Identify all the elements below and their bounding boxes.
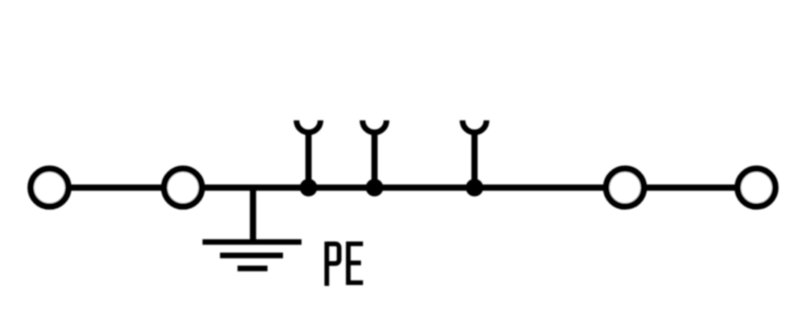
terminal circle X4 (rightmost) [738,169,776,207]
clamp connection symbol 2: stem [371,130,377,188]
terminal circle X2 [164,169,202,207]
clamp connection symbol 1: cup arc [297,120,321,132]
wire: third terminal to right terminal [625,185,757,191]
wire: main PE bus from second terminal to third terminal [183,185,625,191]
terminal circle X1 (leftmost) [31,169,69,207]
ground: top bar [203,239,302,245]
wire: left terminal to second terminal [50,185,184,191]
label PE: letter P [327,242,339,286]
ground: middle bar [220,253,283,259]
wire: ground tap vertical [250,188,256,242]
node junction dot 1 [300,179,318,197]
clamp connection symbol 1: stem [305,130,311,188]
label PE: letter E [346,242,363,285]
terminal circle X3 [606,169,644,207]
clamp connection symbol 2: cup arc [363,120,387,132]
clamp connection symbol 3: cup arc [463,120,487,132]
node junction dot 2 [366,179,384,197]
node junction dot 3 [466,179,484,197]
ground: bottom bar [238,266,268,272]
clamp connection symbol 3: stem [471,130,477,188]
